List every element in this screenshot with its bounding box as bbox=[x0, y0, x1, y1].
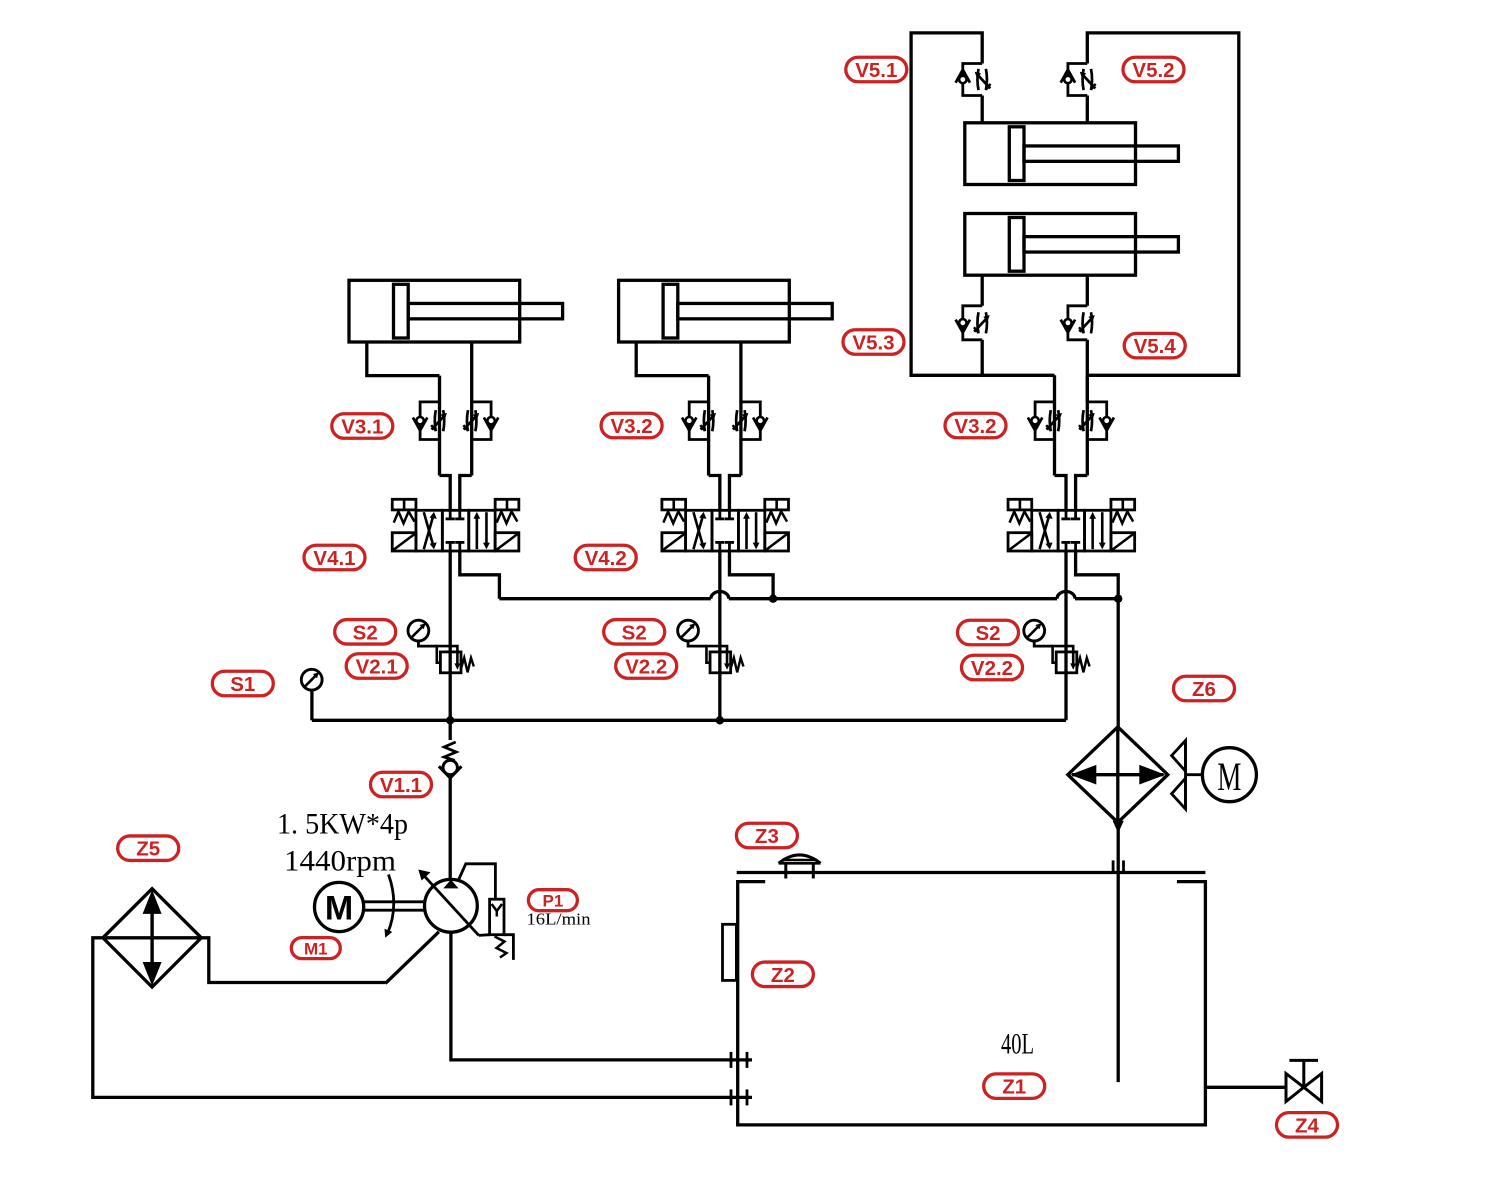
svg-text:M: M bbox=[325, 890, 353, 928]
svg-text:V5.1: V5.1 bbox=[855, 59, 897, 82]
svg-text:1440rpm: 1440rpm bbox=[284, 845, 396, 878]
svg-text:V3.2: V3.2 bbox=[954, 415, 996, 438]
svg-text:V3.1: V3.1 bbox=[341, 416, 383, 439]
svg-text:1. 5KW*4p: 1. 5KW*4p bbox=[277, 808, 408, 841]
svg-text:Z1: Z1 bbox=[1002, 1076, 1026, 1099]
svg-text:S2: S2 bbox=[975, 622, 1000, 645]
svg-text:Z6: Z6 bbox=[1192, 678, 1216, 701]
svg-text:V2.2: V2.2 bbox=[971, 657, 1013, 680]
svg-text:V2.2: V2.2 bbox=[625, 656, 667, 679]
svg-text:V5.2: V5.2 bbox=[1132, 59, 1174, 82]
svg-text:Z4: Z4 bbox=[1295, 1114, 1320, 1137]
svg-text:V2.1: V2.1 bbox=[356, 656, 398, 679]
svg-text:V5.4: V5.4 bbox=[1134, 335, 1177, 358]
svg-text:V1.1: V1.1 bbox=[380, 774, 422, 797]
svg-text:V3.2: V3.2 bbox=[611, 415, 653, 438]
svg-text:Z2: Z2 bbox=[771, 964, 795, 987]
svg-text:S2: S2 bbox=[622, 621, 647, 644]
svg-text:Z5: Z5 bbox=[136, 838, 160, 861]
svg-text:M1: M1 bbox=[304, 940, 328, 959]
svg-text:S2: S2 bbox=[353, 621, 378, 644]
svg-text:V5.3: V5.3 bbox=[852, 332, 894, 355]
svg-text:P1: P1 bbox=[543, 892, 564, 911]
svg-text:40L: 40L bbox=[1001, 1028, 1034, 1061]
svg-text:V4.2: V4.2 bbox=[585, 547, 627, 570]
svg-text:Z3: Z3 bbox=[755, 825, 779, 848]
svg-text:M: M bbox=[1217, 754, 1241, 799]
svg-text:S1: S1 bbox=[230, 673, 255, 696]
svg-text:V4.1: V4.1 bbox=[313, 547, 355, 570]
